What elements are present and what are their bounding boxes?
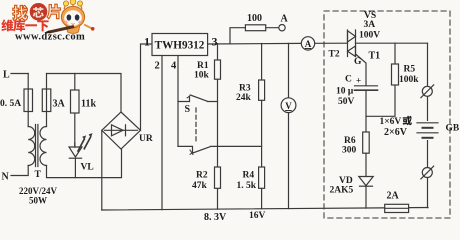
svg-text:50W: 50W [29, 196, 47, 206]
dashed enclosure box [324, 11, 450, 218]
watermark mascot head [64, 2, 82, 10]
svg-text:4: 4 [171, 61, 177, 72]
svg-text:100: 100 [247, 13, 262, 24]
wire right column battery [427, 43, 429, 207]
svg-text:2AK5: 2AK5 [330, 186, 354, 196]
transformer core [36, 125, 38, 167]
wire pin 3 top rail [208, 42, 348, 45]
battery GB [415, 121, 440, 140]
ammeter A [301, 37, 314, 50]
resistor 11k [71, 90, 80, 113]
svg-text:3: 3 [212, 35, 218, 49]
wire secondary top rail [47, 74, 122, 113]
svg-text:2: 2 [155, 61, 160, 72]
transformer T secondary winding [40, 127, 47, 166]
wire primary to N [11, 166, 28, 176]
resistor R1 [215, 60, 221, 79]
svg-text:V: V [285, 101, 292, 111]
resistor R6 [363, 132, 370, 153]
svg-text:220V/24V: 220V/24V [19, 186, 58, 196]
svg-text:10k: 10k [194, 71, 210, 81]
svg-text:R3: R3 [239, 84, 251, 94]
svg-text:A: A [305, 39, 312, 49]
transformer T primary winding [28, 127, 35, 166]
bridge rectifier UR [102, 112, 141, 149]
switch S pole 1 [178, 95, 218, 102]
wire R1 R2 column [217, 44, 219, 210]
svg-text:1. 5k: 1. 5k [237, 181, 257, 191]
IC U1 TWH9312 box [152, 34, 208, 56]
svg-text:R4: R4 [243, 171, 255, 181]
svg-text:16V: 16V [249, 211, 266, 221]
svg-text:VD: VD [339, 176, 353, 186]
connector circle upper [422, 86, 432, 96]
resistor R5 [392, 64, 399, 85]
wire VD to bottom rail [365, 186, 367, 208]
wire 11k branch [74, 74, 76, 148]
wire L to fuse [27, 74, 29, 127]
svg-text:300: 300 [342, 146, 357, 156]
svg-text:1×6V: 1×6V [380, 117, 402, 127]
watermark outlined char pian [47, 4, 60, 19]
svg-text:24k: 24k [236, 93, 252, 103]
svg-text:3A: 3A [364, 20, 376, 30]
svg-text:www.dzsc.com: www.dzsc.com [15, 32, 85, 43]
fuse 0.5A [24, 89, 33, 112]
fuse 3A [42, 89, 51, 112]
connector circle lower [422, 168, 432, 178]
wire R5 branch [366, 43, 395, 116]
watermark text weiku yixia [1, 19, 48, 31]
svg-text:10 μ: 10 μ [336, 87, 354, 97]
battery option huo char [403, 116, 412, 125]
watermark mascot arm [84, 25, 92, 29]
watermark mascot face [64, 10, 82, 26]
svg-text:47k: 47k [192, 181, 208, 191]
svg-text:R1: R1 [197, 61, 209, 71]
watermark logo [1, 0, 94, 43]
svg-text:+: + [356, 76, 361, 86]
switch S pole 2 [178, 146, 262, 152]
wire secondary bottom to bridge AC [47, 149, 122, 178]
svg-text:L: L [3, 70, 10, 81]
svg-text:T1: T1 [369, 51, 381, 62]
wire bridge negative to bottom rail [101, 130, 103, 210]
fuse 2A [385, 204, 409, 212]
svg-text:3A: 3A [53, 99, 66, 110]
svg-text:1: 1 [144, 35, 150, 49]
wire triac T1 rail [356, 42, 428, 44]
wire R6 to VD [365, 153, 367, 176]
wire 100 ohm branch [230, 28, 279, 44]
watermark red badge char xin [30, 3, 48, 21]
node terminal A [279, 25, 285, 31]
wire triac gate [356, 54, 367, 86]
svg-text:A: A [281, 14, 289, 25]
resistor R3 [259, 80, 265, 100]
svg-text:C: C [345, 75, 352, 85]
diode VD [359, 177, 373, 186]
svg-text:100k: 100k [399, 75, 419, 85]
watermark mascot pen [49, 27, 75, 33]
triac VS lower triangle [348, 46, 356, 57]
resistor 100 [245, 25, 265, 31]
wire cap to R6 column [365, 90, 367, 132]
resistor R2 [215, 167, 221, 188]
switch S gang dashed link [195, 108, 197, 144]
svg-text:TWH9312: TWH9312 [155, 40, 205, 52]
wire pin 4 column [177, 56, 179, 147]
wire secondary top to rail [46, 74, 48, 127]
svg-text:R5: R5 [404, 65, 416, 75]
svg-text:2A: 2A [387, 191, 400, 202]
svg-text:11k: 11k [81, 99, 96, 110]
svg-text:R2: R2 [196, 171, 208, 181]
LED VL [69, 147, 82, 157]
svg-text:UR: UR [139, 134, 153, 144]
svg-text:R6: R6 [344, 136, 356, 146]
resistor R4 [259, 167, 265, 188]
wire R3 R4 column [261, 44, 263, 209]
wire pin 2 to bottom rail [161, 56, 163, 210]
svg-text:T2: T2 [329, 50, 340, 60]
triac VS left bar [347, 30, 349, 57]
wire bridge positive to pin 1 [141, 44, 153, 130]
svg-text:0. 5A: 0. 5A [0, 99, 21, 109]
node L terminal [11, 73, 28, 75]
bridge inner diode [105, 129, 138, 131]
svg-text:N: N [2, 172, 10, 183]
svg-text:GB: GB [446, 124, 460, 134]
svg-text:G: G [354, 57, 362, 67]
watermark outlined char zhao [13, 5, 28, 20]
bottom rail [102, 208, 428, 211]
triac VS right bar [355, 30, 357, 57]
LED VL emission arrows [78, 137, 91, 151]
svg-text:8. 3V: 8. 3V [204, 212, 227, 223]
watermark mascot body [66, 25, 80, 34]
svg-text:T: T [35, 170, 42, 180]
svg-text:VL: VL [81, 163, 94, 173]
svg-text:S: S [185, 104, 191, 115]
svg-text:100V: 100V [359, 31, 380, 41]
capacitor C [355, 85, 378, 87]
svg-text:50V: 50V [338, 97, 355, 107]
svg-text:2×6V: 2×6V [384, 127, 408, 138]
triac VS upper triangle [348, 31, 356, 42]
wire voltmeter branch [288, 43, 290, 208]
voltmeter V [281, 98, 296, 113]
